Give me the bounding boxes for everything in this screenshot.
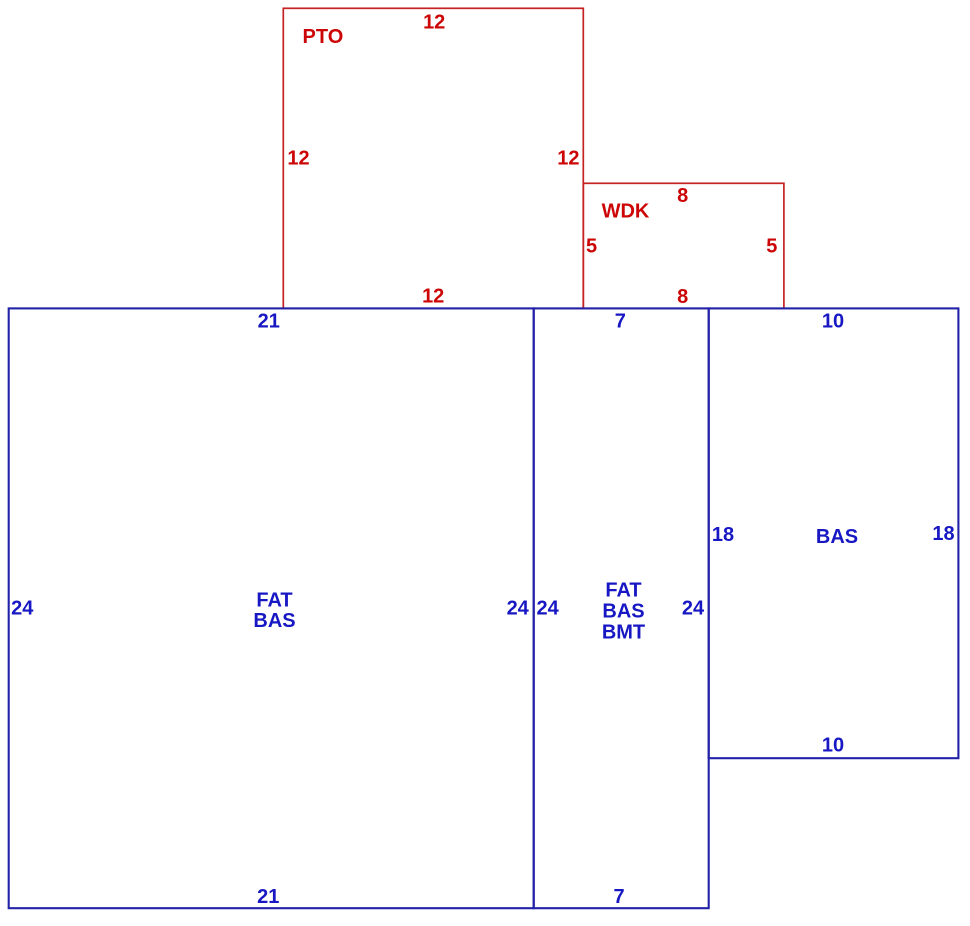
svg-text:12: 12 <box>423 11 445 33</box>
svg-text:BAS: BAS <box>602 601 644 623</box>
svg-text:10: 10 <box>822 311 844 333</box>
FAT/BAS main section outline <box>9 308 534 908</box>
svg-text:24: 24 <box>507 598 530 620</box>
svg-text:12: 12 <box>557 148 579 170</box>
BAS right section outline <box>709 308 959 758</box>
svg-text:12: 12 <box>287 148 309 170</box>
svg-text:7: 7 <box>615 311 626 333</box>
svg-text:24: 24 <box>536 598 559 620</box>
svg-text:5: 5 <box>586 235 597 257</box>
svg-text:FAT: FAT <box>256 589 292 611</box>
svg-text:24: 24 <box>11 598 34 620</box>
svg-text:18: 18 <box>712 524 734 546</box>
svg-text:8: 8 <box>677 286 688 308</box>
FAT/BAS/BMT middle section outline <box>534 308 709 908</box>
PTO patio outline <box>283 8 583 308</box>
svg-text:21: 21 <box>257 886 279 908</box>
svg-text:12: 12 <box>422 285 444 307</box>
svg-text:18: 18 <box>932 523 954 545</box>
svg-text:BAS: BAS <box>253 610 295 632</box>
svg-text:BAS: BAS <box>816 526 858 548</box>
svg-text:10: 10 <box>822 734 844 756</box>
WDK deck outline <box>583 183 784 308</box>
svg-text:8: 8 <box>677 185 688 207</box>
svg-text:7: 7 <box>613 886 624 908</box>
svg-text:FAT: FAT <box>605 580 641 602</box>
svg-text:BMT: BMT <box>602 621 645 643</box>
svg-text:PTO: PTO <box>303 26 344 48</box>
svg-text:21: 21 <box>258 311 280 333</box>
svg-text:5: 5 <box>766 235 777 257</box>
svg-text:24: 24 <box>682 598 705 620</box>
svg-text:WDK: WDK <box>602 201 650 223</box>
